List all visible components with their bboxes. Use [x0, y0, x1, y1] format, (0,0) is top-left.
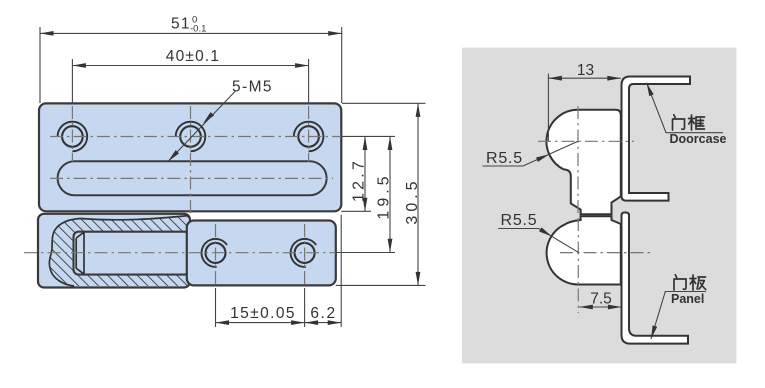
dim 7.5: [579, 306, 621, 308]
svg-text:6.2: 6.2: [310, 305, 336, 322]
doorcase profile: [622, 77, 691, 201]
gray backdrop: [462, 48, 736, 364]
svg-text:5-M5: 5-M5: [232, 79, 273, 96]
lower knuckle: [547, 216, 621, 284]
hole 4: [206, 243, 226, 263]
top plate: [39, 103, 341, 211]
lower-left hatched section body: [38, 214, 190, 288]
svg-text:12.7: 12.7: [351, 158, 368, 202]
slot: [58, 161, 327, 195]
5-M5 leader: [168, 92, 235, 162]
lower-right plate: [187, 221, 336, 286]
hatch fill: [38, 210, 193, 290]
panel profile: [622, 213, 689, 344]
svg-text:7.5: 7.5: [590, 291, 612, 308]
hole 1: [62, 126, 83, 147]
dim 13: [547, 74, 549, 142]
extension lines: [40, 27, 426, 327]
svg-text:40±0.1: 40±0.1: [166, 48, 221, 65]
dimension lines: [40, 33, 418, 322]
门板 glyphs: [674, 275, 706, 290]
wavy section boundary: [49, 216, 189, 287]
panel label leader: [651, 292, 706, 340]
svg-text:R5.5: R5.5: [486, 150, 523, 167]
centerlines right view: [538, 106, 650, 313]
hole 3: [298, 126, 319, 147]
svg-text:13: 13: [577, 62, 594, 79]
svg-text:Panel: Panel: [671, 292, 704, 306]
upper knuckle: [546, 110, 620, 215]
bore: [74, 232, 190, 275]
R5.5 lower: [498, 229, 578, 253]
svg-text:-0.1: -0.1: [190, 24, 206, 35]
centerlines: [24, 106, 341, 288]
svg-text:30.5: 30.5: [404, 177, 421, 224]
svg-text:19.5: 19.5: [376, 172, 393, 219]
bore chamfer: [76, 232, 84, 274]
svg-text:R5.5: R5.5: [501, 212, 538, 229]
hole 5: [295, 243, 315, 263]
svg-text:Doorcase: Doorcase: [670, 132, 727, 146]
hole 2: [180, 126, 201, 147]
svg-text:15±0.05: 15±0.05: [230, 305, 296, 322]
svg-text:51: 51: [171, 16, 191, 33]
门框 glyphs: [673, 115, 705, 130]
R5.5 upper: [483, 141, 579, 166]
doorcase label leader: [647, 83, 723, 133]
arrows left view: [40, 31, 54, 36]
